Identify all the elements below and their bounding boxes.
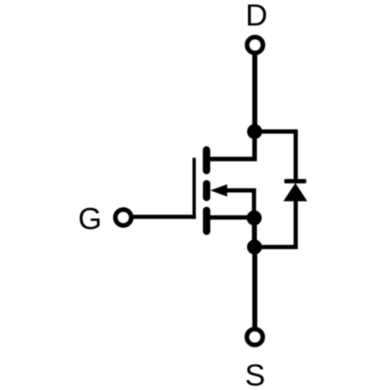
svg-text:D: D <box>245 0 267 33</box>
wire drain terminal to node A <box>252 55 257 132</box>
transistor Q1 source bar <box>203 210 210 231</box>
wire node A to drain bar <box>210 132 255 159</box>
svg-text:G: G <box>78 202 102 236</box>
node A junction dot <box>247 124 262 139</box>
diode D1 anode triangle <box>283 183 307 201</box>
terminal D <box>247 37 263 53</box>
transistor Q1 body bar <box>203 184 210 198</box>
node C junction dot <box>247 240 262 255</box>
wire node A to diode cathode <box>255 132 296 181</box>
terminal G <box>115 210 131 226</box>
transistor Q1 gate line <box>193 158 196 219</box>
wire node C to source terminal <box>252 247 257 327</box>
wire body arrow to node B <box>226 190 254 218</box>
terminal S <box>247 329 263 345</box>
node B junction dot <box>247 210 262 225</box>
svg-text:S: S <box>245 359 265 390</box>
wire gate terminal to gate line <box>133 215 196 219</box>
wire source bar to node B <box>210 215 254 219</box>
diode D1 cathode bar <box>284 179 306 183</box>
wire node B to node C <box>252 218 257 247</box>
transistor Q1 body arrow <box>210 184 227 196</box>
wire diode anode to node C <box>255 200 296 247</box>
transistor Q1 drain bar <box>203 150 210 171</box>
